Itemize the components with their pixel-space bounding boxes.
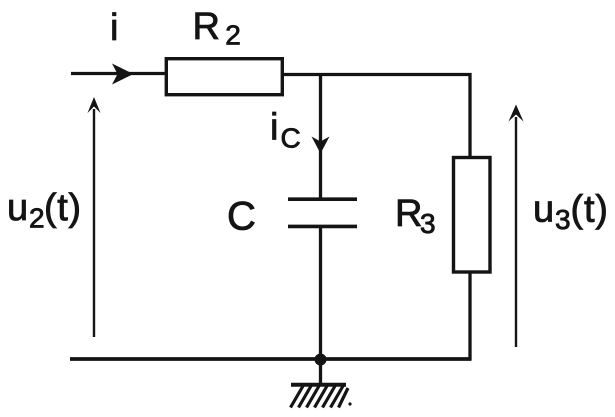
svg-text:u: u (7, 187, 28, 229)
svg-text:C: C (227, 195, 256, 239)
wire: from C bottom plate down to bottom node (319, 228, 322, 359)
current arrow i (arrowhead on top wire) (112, 64, 134, 85)
label i (current into R2) (110, 7, 118, 49)
label u3(t) (output voltage) (533, 189, 609, 236)
label C (capacitor value) (227, 195, 256, 239)
label R3 (395, 193, 436, 239)
wire: top input lead into R2 (71, 72, 167, 75)
svg-text:R: R (193, 6, 220, 48)
svg-text:i: i (270, 107, 278, 149)
capacitor C (plates) (288, 199, 357, 226)
svg-text:u: u (533, 189, 554, 231)
svg-text:(t): (t) (571, 189, 609, 231)
current arrow iC (arrowhead on capacitor branch) (312, 137, 330, 154)
resistor R2 (body) (166, 59, 282, 95)
svg-text:R: R (395, 193, 422, 235)
label u2(t) (input voltage) (7, 187, 82, 234)
svg-text:i: i (110, 7, 118, 49)
label R2 (193, 6, 241, 51)
svg-text:2: 2 (225, 20, 241, 51)
voltage arrow u3(t) (509, 105, 524, 348)
svg-text:(t): (t) (44, 187, 82, 229)
wire: capacitor branch from top wire down to C top plate (319, 74, 322, 198)
resistor R3 (body) (454, 158, 491, 273)
svg-text:C: C (281, 123, 301, 154)
wire: R3 bottom lead to bottom wire (468, 272, 471, 360)
wire: top from R2 to right corner, down to R3 top (282, 75, 470, 158)
voltage arrow u2(t) (88, 97, 101, 337)
wire: bottom return wire (70, 357, 472, 361)
label iC (capacitor current) (270, 107, 301, 154)
ground (symbol below junction) (291, 359, 352, 408)
svg-text:2: 2 (29, 203, 45, 234)
svg-text:3: 3 (555, 204, 571, 235)
node: junction dot at ground node (315, 354, 327, 366)
svg-text:3: 3 (420, 208, 436, 239)
